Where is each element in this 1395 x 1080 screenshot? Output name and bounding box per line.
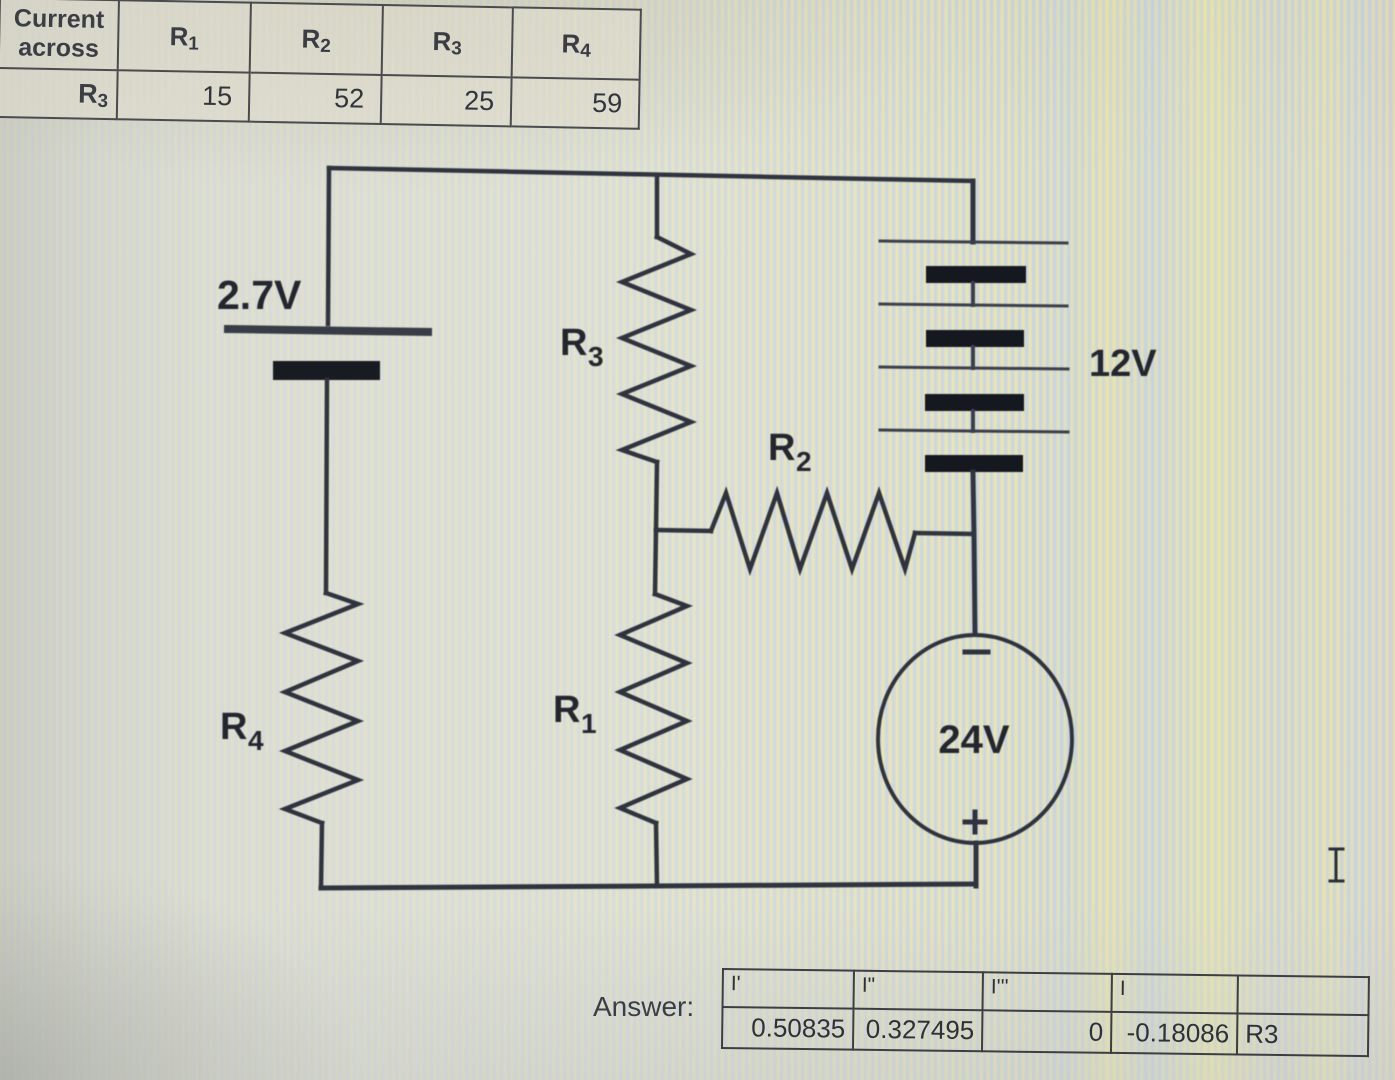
svg-text:2.7V: 2.7V: [217, 272, 302, 318]
resistor R1: [620, 594, 687, 823]
label R1: [553, 689, 597, 739]
battery 12V connector 1: [971, 283, 975, 305]
battery 12V connector 3: [971, 411, 975, 431]
battery B1 2.7V positive plate: [228, 329, 428, 332]
source V1 minus terminal: [965, 650, 988, 655]
battery 12V connector 2: [971, 347, 975, 368]
wire 12V battery top: [971, 181, 976, 242]
battery B1 2.7V negative plate: [273, 361, 380, 380]
wire to source top: [974, 534, 975, 634]
source V1 24V circle: [878, 635, 1072, 843]
wire top: [329, 168, 973, 181]
table: given currents: [0, 0, 642, 130]
wire bottom: [321, 884, 976, 888]
svg-text:R: R: [220, 706, 247, 748]
battery 12V cell1 long plate: [880, 241, 1067, 243]
label 12V: [1089, 343, 1157, 385]
svg-text:1: 1: [581, 708, 597, 739]
wire 12V battery bottom: [973, 472, 974, 534]
label 2.7V: [217, 272, 302, 318]
battery 12V cell4 short plate: [925, 455, 1023, 472]
wire source bottom: [974, 843, 979, 886]
svg-text:3: 3: [588, 341, 604, 372]
table: answer currents: [721, 968, 1370, 1057]
resistor R3: [622, 237, 691, 462]
svg-text:R: R: [553, 689, 580, 731]
wire R1 top: [655, 530, 656, 594]
label Answer:: [593, 991, 694, 1023]
source V1 plus terminal: [965, 812, 985, 832]
label R3: [560, 322, 604, 372]
text cursor I-beam: [1330, 849, 1343, 881]
battery 12V cell3 short plate: [925, 394, 1024, 411]
battery 12V cell2 short plate: [926, 330, 1024, 347]
svg-text:24V: 24V: [938, 718, 1009, 762]
wire R2 to battery wire: [915, 533, 974, 534]
wire left bottom: [321, 823, 322, 888]
wire R3 top: [655, 175, 660, 237]
label 24V: [938, 718, 1009, 762]
svg-text:R: R: [768, 427, 795, 469]
battery 12V cell1 short plate: [926, 266, 1026, 283]
node A junction wire to R2: [656, 530, 711, 531]
svg-text:R: R: [560, 322, 587, 364]
label R4: [220, 706, 264, 756]
resistor R2: [711, 493, 915, 569]
label R2: [768, 427, 812, 477]
battery 12V cell2 long plate: [880, 304, 1067, 306]
svg-text:2: 2: [796, 446, 812, 477]
svg-text:4: 4: [248, 725, 264, 756]
wire left middle: [326, 380, 327, 593]
battery 12V cell3 long plate: [880, 367, 1068, 369]
wire R1 bottom: [656, 823, 657, 886]
svg-text:12V: 12V: [1089, 343, 1157, 385]
wire R3 to node A: [656, 462, 657, 530]
resistor R4: [285, 593, 358, 823]
battery 12V cell4 long plate: [880, 430, 1068, 432]
wire left top: [328, 168, 329, 324]
